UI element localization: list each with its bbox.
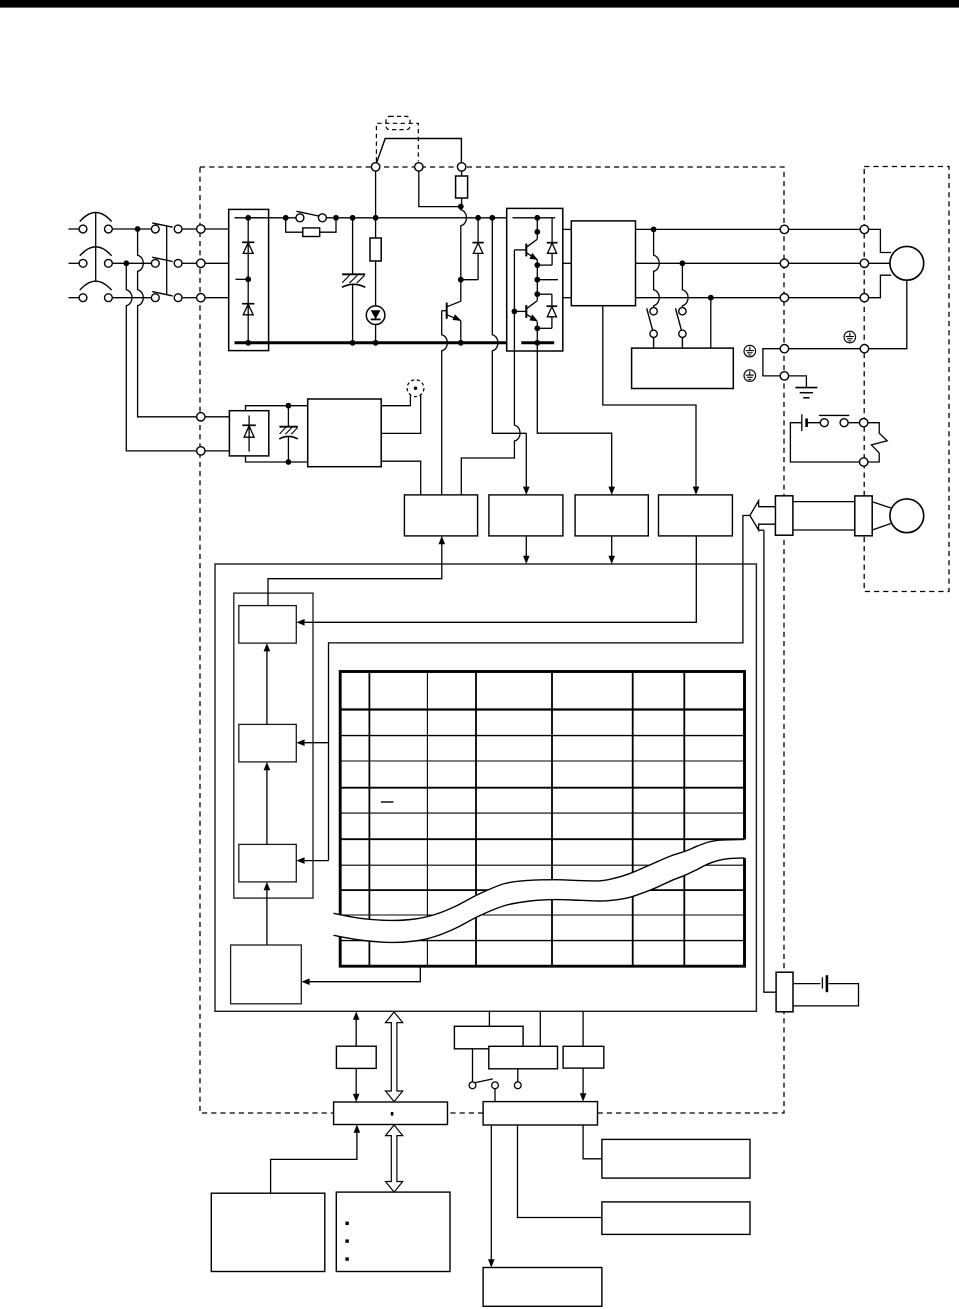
terminal L11 [197,413,205,421]
switching power supply box [308,399,382,467]
terminal PE (amp upper) [780,345,788,353]
terminal D [457,163,465,171]
wire terminal to rectifier row3 [205,297,229,299]
wire switch to interface2 [494,1089,496,1102]
rectifier diode D2 [242,304,254,315]
io block C [563,1046,604,1068]
dynamic brake box [632,348,734,388]
inrush relay contact [296,211,327,222]
memory block (EEPROM) [336,1046,376,1068]
wire control DC- [246,456,308,462]
terminal W (motor) [860,294,868,302]
node lamp branch top [373,215,379,221]
wire output phase W [636,275,892,298]
output box 1 (analog monitor) [602,1139,750,1178]
control rectifier diode [242,416,255,452]
IGBT module U1 [507,208,563,351]
wire DC+ bus [248,217,507,219]
module phase chain wire [536,218,538,343]
circuit breaker MCCB pole 3 [79,281,112,301]
wire DC- bus (thick) [235,341,507,344]
node lamp branch bottom [373,340,379,346]
encoder E [890,499,924,533]
backup battery loop [793,984,859,1006]
wire connector to encoder [872,502,891,530]
wire MCCB to MC row3 [112,297,151,299]
brake chopper transistor Q1 [442,280,462,343]
terminal P [371,163,379,171]
wire switch feed A [472,1049,474,1082]
wire motor frame ground [869,280,907,349]
bus arrow control to interface (hollow double) [386,1012,403,1102]
wire gate line B (hops line A) [461,250,520,495]
wire terminal to rectifier row2 [205,262,229,264]
node chopper collector [458,277,464,283]
transistor Q2 (upper IGBT) [514,239,538,260]
node phase W branch [708,295,714,301]
wire input stub L1 [69,228,80,230]
main control block boundary [215,564,756,1011]
brake switch contact [819,415,849,426]
servo motor enclosure (dashed) [864,167,949,592]
node C2 top [286,403,292,409]
node module dots [512,215,541,346]
torn ribbon across table [334,839,747,942]
charge lamp [366,306,385,325]
wire output phase U [636,229,892,252]
wire CT output to block4 [603,306,700,495]
module emitter bar [521,341,554,344]
bus arrow interface1 to option unit (hollow double) [386,1125,403,1192]
wire DB branch W [710,298,712,348]
wire block B to control [539,1012,541,1047]
wire resistor to lamp [375,261,377,306]
wire fan supply 2 [381,395,421,433]
servo motor M [890,246,924,280]
interface block 1 mark [391,1112,394,1116]
MCCB mechanical link [95,213,97,282]
regeneration control block [575,495,648,536]
table cell dash [381,801,394,803]
wire interface2 to output box 2 [518,1125,602,1218]
arrow feedback into block B2 [296,739,328,746]
node rectifier DC- [245,340,251,346]
wire control DC+ [246,406,308,411]
node inrush right [333,215,339,221]
gate drive block [404,495,477,536]
arrow external box to interface1 [271,1125,361,1194]
voltage detection block [489,495,563,536]
external operation box [211,1193,324,1271]
block B2 (speed control) [239,724,296,762]
junction dot tap2 [123,260,129,266]
rectifier diode D1 [242,242,254,253]
MC mechanical link [166,226,168,295]
wire output phase V [636,262,890,264]
control power tap wire 1 (hops rows 2 and 3) [138,229,197,417]
terminal PE (motor) [860,345,868,353]
encoder cable wires [793,502,855,530]
battery symbol [822,975,827,992]
arrow feedback into block B3 [296,857,328,864]
terminal C [415,163,423,171]
terminal U (amp) [780,225,788,233]
output box 2 (servo configuration) [602,1202,750,1235]
interface block 2 [483,1102,597,1125]
arrow block2 to control box [523,536,530,564]
block B1 (current control) [239,606,296,644]
header bar [0,0,959,8]
brake coil break symbol [871,433,887,453]
wire MCCB to MC row1 [112,228,151,230]
wire regen link P to D [377,139,462,163]
earth ground symbol [789,376,818,398]
node diode D3 top [475,215,481,221]
interface block 1 [334,1102,448,1125]
node phase U branch [651,227,657,233]
terminal B2 [860,458,868,466]
arrow memory to interface [353,1068,360,1102]
arrow block C to interface2 [580,1068,587,1102]
wire MC to terminal row2 [182,262,197,264]
jumper plate (dashed) [386,116,410,129]
junction dot tap1 [135,226,141,232]
wire B1 to gate drive block [268,536,445,606]
arrow memory to control [353,1012,360,1047]
wire terminal to rectifier row1 [205,228,229,230]
node phase V branch [680,260,686,266]
current detection block [659,495,733,536]
wire L21 to control rectifier [205,450,229,452]
arrow line A into block2 [523,433,530,495]
control rectifier box [229,411,268,456]
node C1 bottom [350,340,356,346]
PE symbol 2 [744,370,756,382]
wire power to gate block [381,461,421,495]
parameter table grid [340,672,744,967]
terminal L3 [197,294,205,302]
selector switch [469,1079,521,1089]
node chopper emitter [458,340,464,346]
io block A [454,1026,523,1049]
discharge resistor R2 [370,238,381,261]
option unit bullets [345,1222,348,1261]
DB contact U [647,308,658,349]
block B4 (command processing) [231,945,302,1004]
wire line C to block3 [537,343,615,495]
encoder connector CN2 (amp side) [775,496,793,535]
contactor MC pole 1 [151,223,182,233]
wire DB branch U (hops rows V and W) [654,229,660,307]
terminal L1 [197,225,205,233]
arrow into B1 right edge [296,619,304,626]
charge lamp branch wire [375,171,377,238]
PE symbol 3 (motor) [844,331,856,343]
io block B [489,1046,558,1069]
battery connector CN [776,972,793,1012]
terminal W (amp) [780,294,788,302]
wire DB branch V (hops row W) [682,263,688,307]
wire regen to chopper (hops DC+ bus) [461,207,467,280]
inrush resistor R1 [286,218,336,237]
brake power battery [802,414,807,431]
node regen junction [458,204,464,210]
arrow block3 to control box [608,536,615,564]
servo amplifier enclosure (dashed) [200,167,784,1113]
contactor MC pole 3 [151,292,182,302]
wire DC voltage sense line A (hops DC- bus) [492,218,526,433]
rectifier internal chain wire [235,218,263,343]
wire block C to control [582,1012,584,1047]
wire ground bracket [763,349,780,376]
regenerative resistor (internal) [456,171,468,207]
terminal L2 [197,259,205,267]
node line A top [489,215,495,221]
wire fan supply 1 [381,395,410,406]
wire encoder feedback 2 (to battery connector) [759,530,777,992]
contactor MC pole 2 [151,257,182,267]
capacitor C2 [279,406,298,462]
option unit box [336,1192,450,1271]
wire PE to motor [789,348,861,350]
electromagnetic brake circuit wire [790,423,879,462]
terminal L21 [197,447,205,455]
encoder connector (motor side) [855,496,872,536]
circuit breaker MCCB pole 2 [79,247,112,267]
wire block A to control [488,1012,490,1027]
terminal PE (amp lower) [780,372,788,380]
block B3 (position control) [239,844,296,882]
node inrush left [283,215,289,221]
terminal V (amp) [780,259,788,267]
wire lamp to DC- bus [375,325,377,343]
encoder signal arrow (hollow) [750,501,776,530]
transistor Q3 (lower IGBT) [514,301,538,322]
wire L11 to control rectifier [205,416,229,418]
terminal B1 [860,419,868,427]
PE symbol 1 [744,345,756,357]
diode D4 (upper freewheel) [537,218,557,265]
rectifier bridge box [229,209,269,350]
DB contact V [676,308,687,349]
current detector CT [571,221,635,306]
control loop group box [234,593,313,898]
chopper freewheel diode D3 [461,218,484,280]
wire MC to terminal row1 [182,228,197,230]
arrow interface2 to monitor box [488,1125,495,1268]
control power tap wire 2 (hops row 3) [126,263,196,451]
wire module output midpoint [537,279,558,281]
arrow B3 to B2 [264,762,271,845]
wire module to current detector stubs [563,229,572,297]
cooling fan (dashed circle) [407,380,424,397]
wire encoder feedback 1 (to speed/position control) [329,516,750,861]
wire chopper gate (hops DC- bus) [442,311,448,495]
terminal V (motor) [860,259,868,267]
diode D5 (lower freewheel) [537,294,557,328]
jumper outline P-D (dashed) [376,123,418,161]
wire interface2 to output box 1 [583,1125,602,1159]
wire block4 to B1 [302,536,697,622]
monitor display box [483,1268,602,1307]
wire terminal C down [419,171,461,207]
smoothing capacitor C1 [342,218,365,343]
terminal U (motor) [860,225,868,233]
arrow B2 to B1 [264,643,271,724]
arrow table to B4 [301,966,420,985]
circuit breaker MCCB pole 1 [79,213,112,233]
node C1 top [350,215,356,221]
wire switch feed B [517,1069,519,1082]
node rectifier DC+ [245,215,251,221]
wire input stub L2 [69,262,80,264]
arrow B4 to B3 [264,882,271,945]
module internal DC+ rail [513,217,556,219]
node rectifier midpoint [245,276,251,282]
wire input stub L3 [69,297,80,299]
node C2 bottom [286,459,292,465]
wire MC to terminal row3 [182,297,197,299]
wire MCCB to MC row2 [112,262,151,264]
